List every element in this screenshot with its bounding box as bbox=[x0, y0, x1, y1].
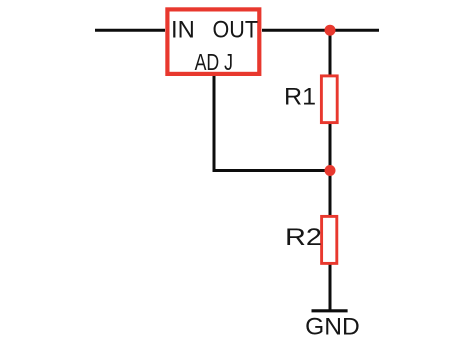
svg-text:AD J: AD J bbox=[195, 49, 233, 75]
svg-text:IN: IN bbox=[171, 17, 195, 44]
svg-text:R2: R2 bbox=[285, 224, 322, 251]
svg-text:OUT: OUT bbox=[213, 17, 259, 44]
svg-text:R1: R1 bbox=[284, 83, 316, 110]
svg-text:GND: GND bbox=[305, 314, 360, 341]
